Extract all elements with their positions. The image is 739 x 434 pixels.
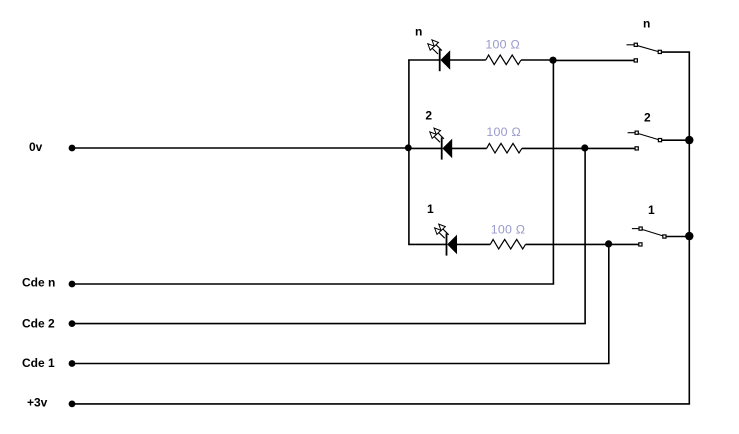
svg-text:100 Ω: 100 Ω	[486, 125, 521, 139]
svg-text:+3v: +3v	[27, 396, 48, 410]
switch S-n	[627, 43, 662, 62]
wire row n: LED to resistor	[450, 59, 486, 61]
LED D-n	[428, 40, 450, 71]
terminal dot +3v	[69, 401, 76, 408]
wire riser Cde 1 vertical	[608, 244, 610, 364]
junction node row 2 / Cde 2 riser	[581, 144, 588, 151]
wire row 2: LED to resistor	[452, 147, 487, 149]
wire 0v horizontal	[72, 147, 409, 149]
wire switch n to right bus	[662, 51, 691, 53]
wire row 1: resistor to junction	[526, 243, 609, 245]
svg-text:1: 1	[427, 202, 434, 216]
junction node row n / Cde n riser	[549, 57, 556, 64]
wire switch 2 to right bus	[662, 139, 690, 141]
junction node switch 2 / right bus	[685, 136, 693, 144]
wire row n: resistor to junction	[521, 59, 553, 61]
wire Cde n horizontal	[72, 283, 554, 285]
resistor R-1	[490, 239, 525, 249]
svg-text:n: n	[415, 25, 422, 39]
switch S-2	[628, 131, 662, 150]
terminal dot 0v	[69, 145, 76, 152]
terminal dot Cde 1	[69, 360, 76, 367]
svg-text:2: 2	[425, 109, 432, 123]
wire left bus vertical	[408, 60, 410, 245]
resistor R-2	[487, 143, 522, 153]
wire switch 1 to right bus	[666, 236, 689, 238]
svg-text:Cde 1: Cde 1	[22, 356, 55, 370]
wire Cde 1 horizontal	[72, 363, 610, 365]
svg-text:2: 2	[644, 111, 651, 125]
switch S-1	[632, 227, 666, 246]
terminal dot Cde n	[69, 281, 76, 288]
wire right bus vertical	[688, 52, 690, 404]
wire row 1: LED to resistor	[457, 243, 491, 245]
junction node row 1 / Cde 1 riser	[605, 240, 612, 247]
wire row 2: bus to LED 2	[408, 147, 442, 149]
wire row n: bus to LED n	[408, 59, 440, 61]
svg-text:100 Ω: 100 Ω	[485, 37, 520, 51]
wire riser Cde 2 vertical	[584, 148, 586, 324]
wire +3v horizontal	[72, 403, 690, 405]
svg-text:Cde n: Cde n	[22, 276, 55, 290]
wire row 2: resistor to junction	[522, 147, 585, 149]
junction node switch 1 / right bus	[685, 232, 693, 240]
wire row n: junction to switch n	[553, 59, 634, 61]
LED D-1	[435, 224, 457, 256]
resistor R-n	[486, 55, 521, 65]
wire Cde 2 horizontal	[72, 323, 586, 325]
junction node 0v / left bus	[405, 144, 412, 151]
terminal dot Cde 2	[69, 320, 76, 327]
svg-text:100 Ω: 100 Ω	[491, 222, 526, 236]
LED D-2	[430, 128, 452, 160]
svg-text:0v: 0v	[29, 140, 43, 154]
svg-text:n: n	[643, 17, 650, 31]
svg-text:Cde 2: Cde 2	[22, 317, 55, 331]
wire riser Cde n vertical	[552, 60, 554, 284]
wire row 2: junction to switch 2	[585, 147, 636, 149]
wire row 1: junction to switch 1	[609, 243, 639, 245]
svg-text:1: 1	[648, 203, 655, 217]
wire row 1: bus to LED 1	[408, 243, 447, 245]
